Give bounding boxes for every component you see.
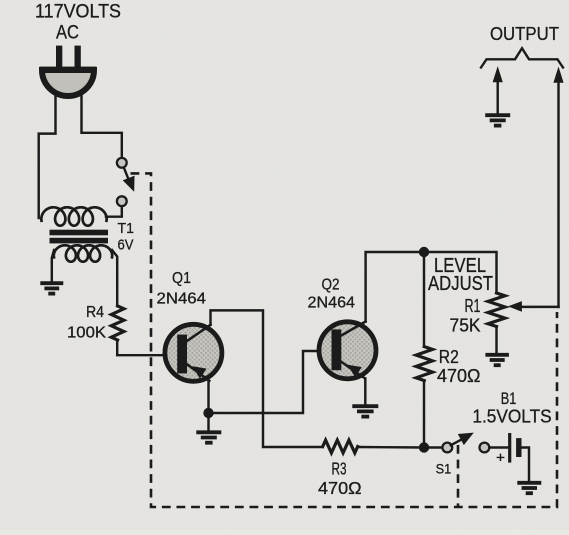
resistor R4 (111, 306, 124, 340)
ground: output left terminal (485, 113, 510, 117)
wire: wiper to output terminal (557, 80, 559, 307)
wire: junction to Q1 ground (207, 413, 209, 431)
svg-text:ADJUST: ADJUST (428, 273, 493, 295)
node: Q1 emitter junction (203, 408, 213, 418)
svg-text:1.5VOLTS: 1.5VOLTS (472, 407, 551, 427)
ground: battery B1 (517, 481, 541, 485)
AC plug (42, 70, 94, 96)
wire: switch lower contact to T1 primary (106, 207, 122, 217)
output brace (481, 48, 563, 67)
battery B1 terminal circle (480, 443, 490, 453)
transformer T1 secondary winding (54, 245, 112, 261)
ground: Q1 emitter (196, 430, 221, 434)
svg-text:Q2: Q2 (322, 277, 340, 294)
wire: Q1 emitter junction to Q2 base (209, 351, 320, 413)
wire: junction to R1 top (424, 252, 497, 293)
ground: R1 (485, 353, 509, 357)
svg-text:6V: 6V (118, 237, 134, 254)
output right terminal arrow (554, 68, 563, 82)
svg-text:T1: T1 (118, 220, 135, 237)
wire: R4 to Q1 base (117, 340, 164, 355)
svg-text:+: + (496, 450, 505, 467)
wire: terminal to B1 plate (490, 446, 509, 448)
svg-text:470Ω: 470Ω (437, 366, 481, 386)
svg-text:R2: R2 (439, 347, 459, 367)
wire: Q2 emitter to ground (364, 378, 366, 404)
wire: plug right lead down to on-off switch (82, 93, 122, 157)
svg-text:B1: B1 (501, 389, 517, 408)
svg-text:R1: R1 (465, 296, 481, 316)
svg-text:117VOLTS: 117VOLTS (35, 2, 121, 23)
svg-text:75K: 75K (450, 316, 481, 336)
wire: plug left lead down to T1 primary (39, 93, 56, 218)
svg-text:Q1: Q1 (172, 270, 191, 287)
wire: Q1 collector up, over and down to R3 (211, 310, 323, 447)
svg-text:R3: R3 (332, 459, 347, 479)
transistor Q1 (165, 324, 222, 381)
svg-text:100K: 100K (67, 325, 106, 342)
ground: T1 secondary (40, 281, 63, 285)
switch S1 contact (442, 443, 452, 453)
output left terminal arrow and stem (496, 80, 498, 113)
wire: Q1 emitter to junction (207, 381, 209, 413)
wire: Q2 collector up to level-adjust rail (366, 252, 424, 322)
svg-text:2N464: 2N464 (308, 295, 356, 312)
dashed mechanical linkage S1 gang (131, 173, 558, 507)
node: R2 top junction (419, 247, 429, 257)
transistor Q2 (319, 322, 376, 379)
ground: Q2 emitter (352, 404, 378, 408)
svg-text:S1: S1 (436, 461, 452, 477)
wire: T1 secondary left lead to ground (52, 250, 54, 281)
resistor R3 (323, 440, 358, 453)
switch S1a upper contact (117, 158, 127, 168)
switch S1a arm (arrow) (124, 169, 130, 185)
dashed linkage branch at S1 (457, 445, 460, 507)
switch S1 arm (arrow) (451, 437, 466, 445)
svg-text:R4: R4 (86, 304, 104, 321)
svg-text:AC: AC (56, 23, 79, 44)
svg-text:OUTPUT: OUTPUT (490, 24, 559, 44)
wire: B1 to ground (522, 448, 530, 481)
svg-text:2N464: 2N464 (157, 291, 207, 308)
svg-text:470Ω: 470Ω (318, 478, 362, 498)
wire: junction to switch S1 (424, 446, 442, 448)
switch S1a lower contact (117, 196, 127, 206)
R1 wiper arrow (520, 306, 559, 308)
wire: T1 secondary right lead to R4 (112, 250, 117, 306)
resistor R2 (423, 252, 425, 347)
transformer T1 core (50, 230, 109, 236)
battery B1 (508, 435, 511, 461)
transformer T1 primary winding (41, 207, 106, 225)
potentiometer R1 (488, 293, 505, 327)
node: R3/S1/R2 junction (419, 442, 429, 452)
